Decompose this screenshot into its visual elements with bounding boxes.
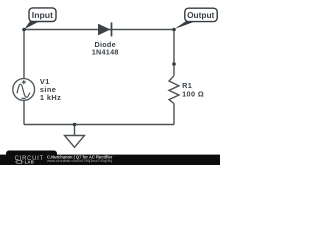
- svg-text:100 Ω: 100 Ω: [182, 89, 204, 98]
- svg-text:1N4148: 1N4148: [92, 47, 119, 56]
- svg-text:1 kHz: 1 kHz: [40, 93, 61, 102]
- svg-text:www.circuitlab.com/c6799j3ma7h: www.circuitlab.com/c6799j3ma7h3cj/9kj: [47, 159, 112, 163]
- svg-text:LAB: LAB: [25, 159, 34, 164]
- svg-text:Input: Input: [32, 10, 53, 20]
- svg-text:Output: Output: [187, 10, 214, 20]
